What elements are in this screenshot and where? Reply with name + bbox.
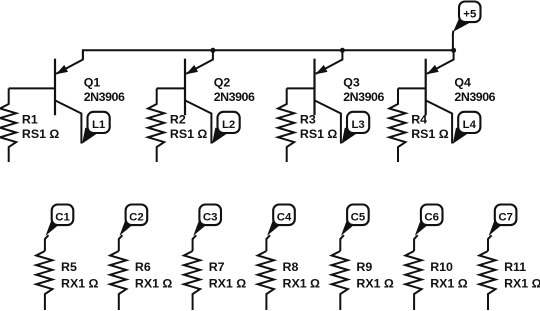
resistor R10 RX1 ohm: [405, 251, 421, 310]
transistor Q4 2N3906 PNP: [426, 50, 454, 143]
svg-text:RX1 Ω: RX1 Ω: [504, 277, 540, 291]
wire node C2 to R6: [119, 235, 123, 251]
wire node C3 to R7: [193, 235, 197, 251]
svg-text:C5: C5: [351, 212, 366, 224]
resistor R6 RX1 ohm: [110, 251, 126, 310]
svg-text:R6: R6: [135, 260, 151, 274]
svg-text:C6: C6: [424, 212, 439, 224]
node L4 callout bubble: [453, 112, 481, 144]
svg-text:L3: L3: [351, 119, 364, 131]
wire node C1 to R5: [45, 235, 49, 251]
svg-text:RS1 Ω: RS1 Ω: [22, 127, 60, 141]
svg-text:R5: R5: [61, 260, 77, 274]
svg-text:R10: R10: [430, 260, 453, 274]
svg-text:C7: C7: [498, 212, 513, 224]
svg-text:RS1 Ω: RS1 Ω: [170, 127, 208, 141]
svg-text:R11: R11: [504, 260, 526, 274]
svg-text:RX1 Ω: RX1 Ω: [430, 277, 468, 291]
svg-text:C1: C1: [55, 212, 70, 224]
node C2 callout bubble: [120, 205, 148, 236]
svg-text:RS1 Ω: RS1 Ω: [411, 127, 449, 141]
svg-text:L4: L4: [463, 119, 477, 131]
wire +5 supply rail: [83, 50, 454, 59]
resistor R8 RX1 ohm: [258, 251, 274, 310]
svg-text:R2: R2: [170, 113, 186, 127]
svg-text:+5: +5: [463, 8, 477, 20]
resistor R2 RS1 ohm: [148, 88, 164, 162]
svg-text:C4: C4: [277, 212, 292, 224]
svg-text:RX1 Ω: RX1 Ω: [209, 277, 247, 291]
node C1 callout bubble: [46, 205, 74, 236]
node C7 callout bubble: [489, 205, 517, 236]
svg-text:Q3: Q3: [343, 75, 360, 89]
svg-text:Q4: Q4: [454, 75, 471, 89]
node C3 callout bubble: [193, 205, 221, 236]
node C4 callout bubble: [267, 205, 295, 236]
svg-text:R1: R1: [22, 113, 38, 127]
svg-text:C3: C3: [203, 212, 218, 224]
svg-text:R7: R7: [209, 260, 225, 274]
node L2 callout bubble: [212, 112, 240, 144]
svg-text:RX1 Ω: RX1 Ω: [356, 277, 394, 291]
wire node C5 to R9: [340, 235, 344, 251]
+5 power supply flag: [453, 2, 481, 51]
transistor Q1 2N3906 PNP: [55, 50, 83, 143]
wire base of Q2 to R2: [157, 87, 185, 89]
node C6 callout bubble: [415, 205, 443, 236]
svg-text:RS1 Ω: RS1 Ω: [300, 127, 338, 141]
svg-text:C2: C2: [129, 212, 144, 224]
svg-text:R4: R4: [411, 113, 427, 127]
wire node C6 to R10: [414, 235, 418, 251]
svg-text:2N3906: 2N3906: [343, 90, 384, 104]
resistor R7 RX1 ohm: [184, 251, 200, 310]
junction dot 3 on rail: [451, 48, 456, 53]
resistor R9 RX1 ohm: [332, 251, 348, 310]
wire node C4 to R8: [266, 235, 270, 251]
resistor R4 RS1 ohm: [389, 88, 405, 162]
node L1 callout bubble: [82, 112, 110, 144]
svg-text:R3: R3: [300, 113, 316, 127]
svg-text:RX1 Ω: RX1 Ω: [135, 277, 173, 291]
wire base of Q1 to R1: [9, 87, 55, 89]
junction dot 1 on rail: [210, 48, 215, 53]
junction dot 2 on rail: [340, 48, 345, 53]
wire base of Q3 to R3: [287, 87, 315, 89]
svg-text:RX1 Ω: RX1 Ω: [61, 277, 99, 291]
transistor Q3 2N3906 PNP: [315, 50, 343, 143]
transistor Q2 2N3906 PNP: [185, 50, 213, 143]
node C5 callout bubble: [341, 205, 369, 236]
svg-text:R8: R8: [283, 260, 299, 274]
svg-text:2N3906: 2N3906: [84, 90, 125, 104]
svg-text:R9: R9: [356, 260, 372, 274]
wire base of Q4 to R4: [398, 87, 426, 89]
svg-text:RX1 Ω: RX1 Ω: [283, 277, 321, 291]
svg-text:L2: L2: [222, 119, 235, 131]
wire node C7 to R11: [488, 235, 492, 251]
resistor R5 RX1 ohm: [36, 251, 52, 310]
resistor R11 RX1 ohm: [479, 251, 495, 310]
svg-text:L1: L1: [92, 119, 106, 131]
resistor R1 RS1 ohm: [0, 88, 16, 162]
svg-text:Q1: Q1: [84, 75, 101, 89]
svg-text:Q2: Q2: [214, 75, 231, 89]
resistor R3 RS1 ohm: [278, 88, 294, 162]
svg-text:2N3906: 2N3906: [454, 90, 495, 104]
node L3 callout bubble: [342, 112, 370, 144]
svg-text:2N3906: 2N3906: [214, 90, 255, 104]
